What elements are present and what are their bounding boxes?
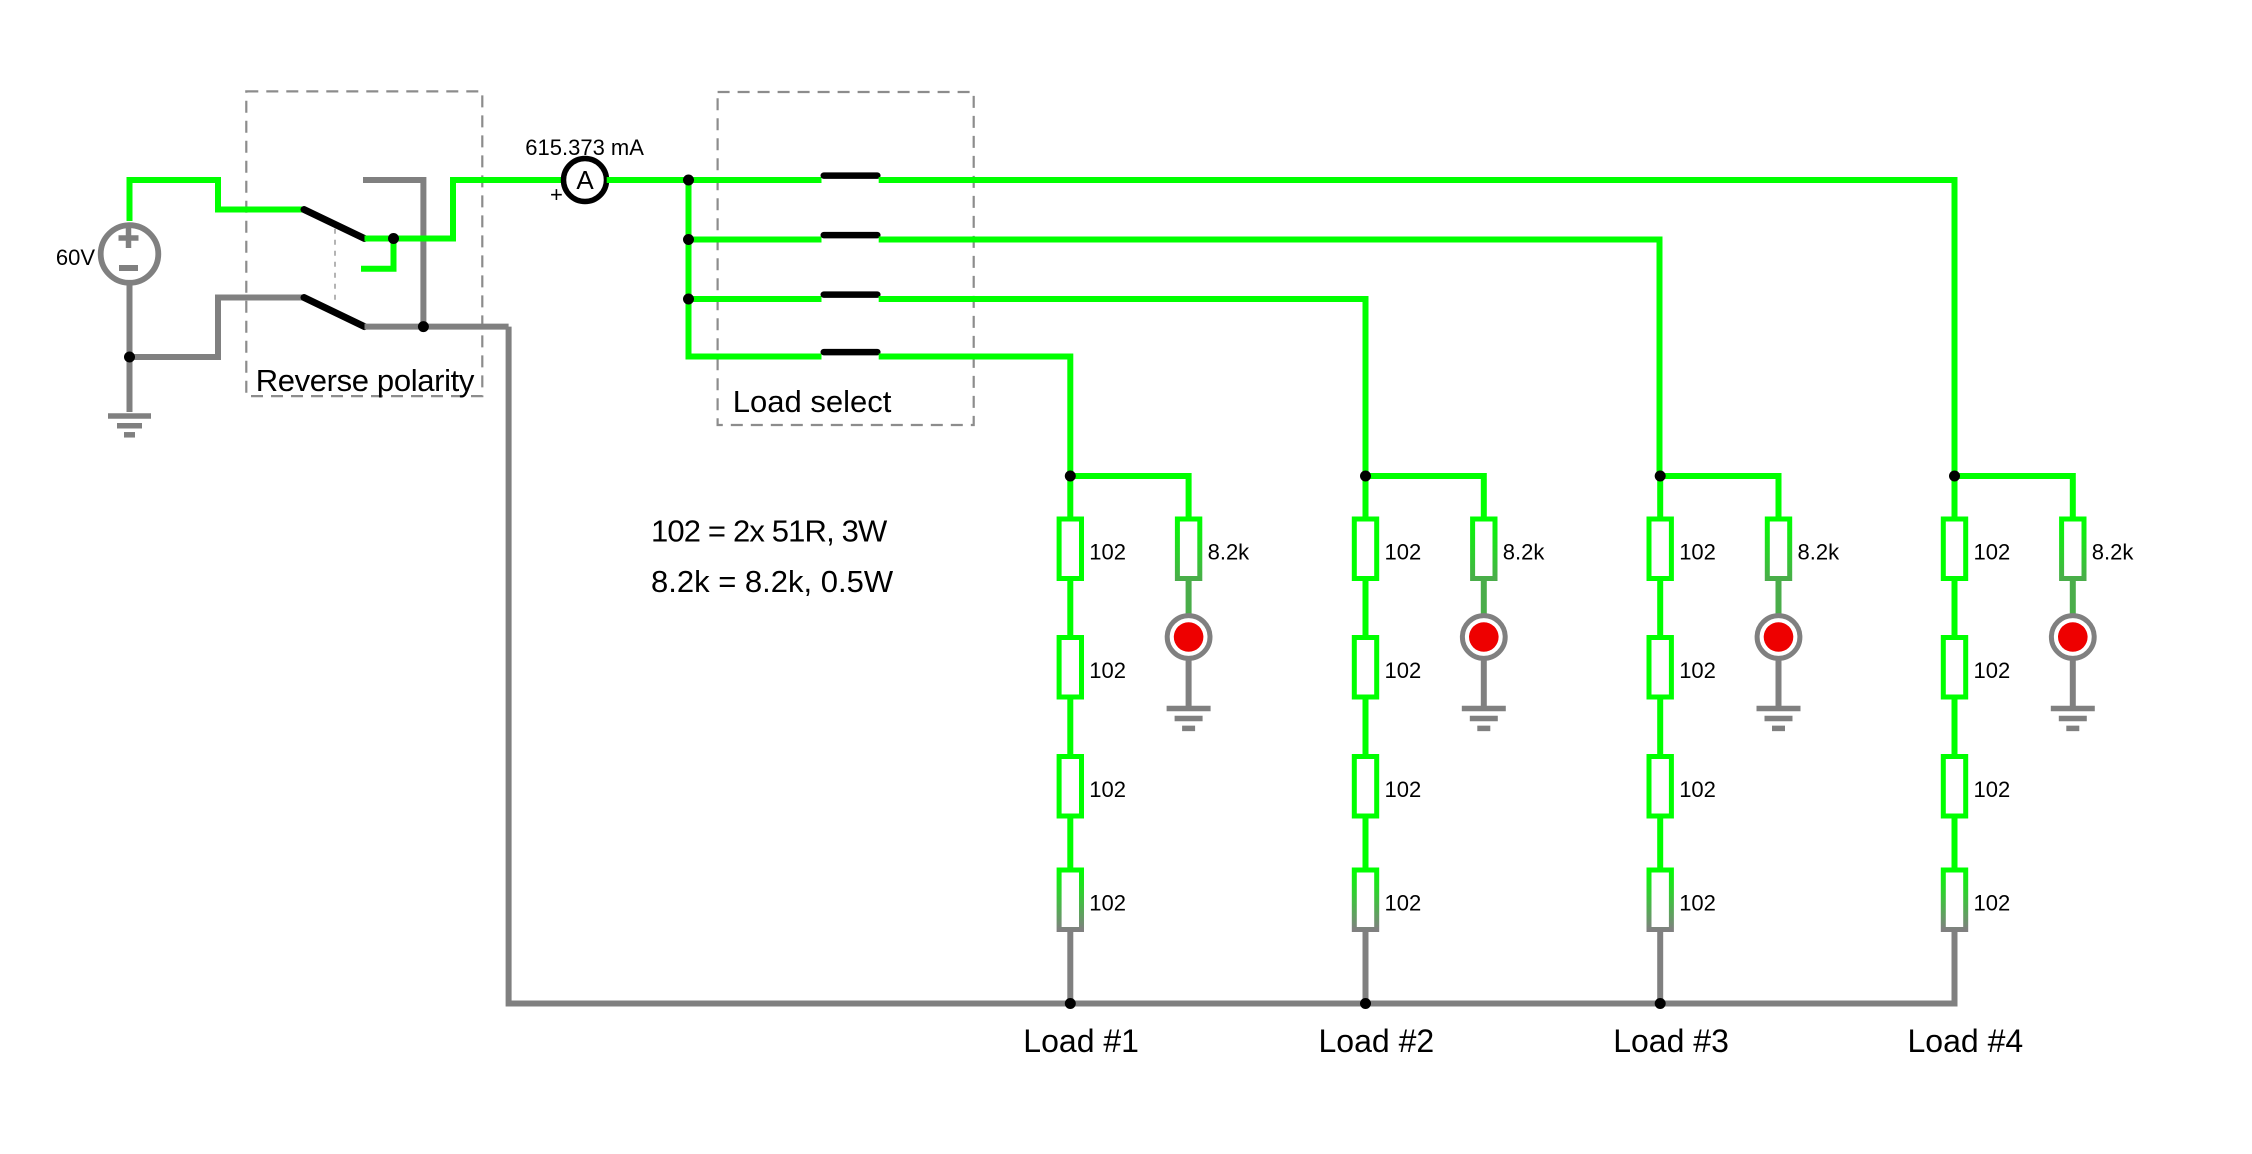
wire row1 left of switch S21 (689, 177, 822, 183)
LED D1 (1167, 616, 1210, 659)
svg-text:+: + (550, 182, 563, 207)
node load1 top junction (1065, 471, 1076, 482)
wire row1 to load drop (879, 180, 1955, 476)
wire R1e to LED D1 (1186, 579, 1192, 617)
wire R1d to ground bus (1067, 930, 1073, 1004)
node V1- junction (124, 352, 135, 363)
resistor R3a 102 (1649, 519, 1671, 579)
wire S1a throw to ammeter (365, 180, 564, 239)
switch S23 closed bar (824, 291, 878, 298)
node load3 bus junction (1655, 998, 1666, 1009)
svg-text:Load #1: Load #1 (1023, 1023, 1139, 1059)
LED D4 (2051, 616, 2094, 659)
svg-text:A: A (576, 165, 594, 195)
dashed box: Load select group (718, 92, 974, 425)
resistor R2d 102 (1354, 870, 1376, 930)
node load2 top junction (1360, 471, 1371, 482)
svg-text:102: 102 (1974, 891, 2011, 916)
svg-text:8.2k: 8.2k (1798, 540, 1841, 565)
resistor R1b 102 (1059, 638, 1081, 698)
wire row3 to load drop (879, 299, 1366, 476)
wire S1b throw to ground bus (365, 324, 509, 330)
svg-text:102: 102 (1385, 891, 1422, 916)
resistor R4a 102 (1943, 519, 1965, 579)
wire load3 top to LED branch (1660, 476, 1778, 519)
svg-text:8.2k: 8.2k (1503, 540, 1546, 565)
svg-text:8.2k: 8.2k (2092, 540, 2135, 565)
LED D3 (1757, 616, 1800, 659)
wire load1 into R1a (1067, 476, 1073, 519)
wire V1- down (127, 285, 133, 358)
wire load3 into R3a (1657, 476, 1663, 519)
switch S1a lever (top pole) (304, 210, 365, 239)
svg-text:102: 102 (1089, 658, 1126, 683)
switch S24 closed bar (824, 349, 878, 356)
wire LED D3 to ground (1776, 659, 1782, 707)
wire R2b to R2c (1363, 697, 1369, 757)
wire R3c to R3d (1657, 816, 1663, 870)
svg-text:102: 102 (1974, 777, 2011, 802)
node load1 bus junction (1065, 998, 1076, 1009)
wire load1 top to LED branch (1070, 476, 1188, 519)
wire R2c to R2d (1363, 816, 1369, 870)
svg-text:Load #3: Load #3 (1613, 1023, 1729, 1059)
wire load4 top to LED branch (1955, 476, 2073, 519)
wire row3 left of switch S23 (689, 296, 822, 302)
svg-text:60V: 60V (56, 245, 95, 270)
resistor R4d 102 (1943, 870, 1965, 930)
wire ground bus (509, 327, 1958, 1004)
svg-text:Load #4: Load #4 (1908, 1023, 2024, 1059)
node load4 top junction (1949, 471, 1960, 482)
ground symbol at source (108, 416, 151, 435)
node load2 bus junction (1360, 998, 1371, 1009)
wire R2d to ground bus (1363, 930, 1369, 1004)
switch S22 closed bar (824, 232, 878, 239)
resistor R2e 8.2k (1473, 519, 1495, 579)
dashed box: Reverse polarity group (246, 91, 482, 396)
ground symbol at LED D3 (1757, 709, 1801, 729)
wire R4d to ground bus (1952, 930, 1958, 1004)
svg-text:102: 102 (1385, 777, 1422, 802)
wire S1a unused throw stub (361, 239, 394, 269)
wire R1b to R1c (1067, 697, 1073, 757)
ground symbol at LED D2 (1462, 709, 1506, 729)
wire LED D2 to ground (1481, 659, 1487, 707)
wire V1- to switch S1b (130, 298, 305, 358)
resistor R4e 8.2k (2062, 519, 2084, 579)
resistor R3c 102 (1649, 757, 1671, 817)
wire S1b unused throw crossover (363, 180, 423, 327)
wire row4 left of switch S24 (686, 354, 822, 360)
wire R3d to ground bus (1657, 930, 1663, 1004)
wire R4b to R4c (1952, 697, 1958, 757)
resistor R1c 102 (1059, 757, 1081, 817)
svg-text:102: 102 (1679, 891, 1716, 916)
svg-text:Load #2: Load #2 (1319, 1023, 1435, 1059)
wire R1c to R1d (1067, 816, 1073, 870)
svg-text:102 = 2x 51R, 3W: 102 = 2x 51R, 3W (651, 513, 888, 548)
resistor R2a 102 (1354, 519, 1376, 579)
resistor R3e 8.2k (1767, 519, 1789, 579)
wire R3a to R3b (1657, 579, 1663, 638)
wire feed vertical (686, 180, 692, 360)
resistor R1d 102 (1059, 870, 1081, 930)
node S1b throw junction (418, 321, 429, 332)
svg-text:102: 102 (1679, 540, 1716, 565)
svg-text:102: 102 (1974, 658, 2011, 683)
resistor R2b 102 (1354, 638, 1376, 698)
node S1a throw junction (388, 233, 399, 244)
node feed row3 (683, 294, 694, 305)
resistor R3d 102 (1649, 870, 1671, 930)
voltage source V1 60V (101, 225, 159, 283)
switch S21 closed bar (824, 172, 878, 179)
svg-text:102: 102 (1385, 658, 1422, 683)
svg-text:102: 102 (1679, 658, 1716, 683)
wire V1+ to switch S1a (130, 180, 305, 221)
svg-text:102: 102 (1089, 540, 1126, 565)
svg-text:615.373 mA: 615.373 mA (525, 135, 644, 160)
wire R1a to R1b (1067, 579, 1073, 638)
svg-text:102: 102 (1974, 540, 2011, 565)
resistor R4c 102 (1943, 757, 1965, 817)
wire R2a to R2b (1363, 579, 1369, 638)
svg-text:8.2k = 8.2k, 0.5W: 8.2k = 8.2k, 0.5W (651, 564, 894, 599)
wire load2 top to LED branch (1366, 476, 1484, 519)
wire row2 to load drop (879, 240, 1660, 477)
wire R4a to R4b (1952, 579, 1958, 638)
wire R3b to R3c (1657, 697, 1663, 757)
resistor R4b 102 (1943, 638, 1965, 698)
LED D2 (1462, 616, 1505, 659)
wire R2e to LED D2 (1481, 579, 1487, 617)
switch S1b lever (bottom pole) (304, 298, 365, 327)
wire load4 into R4a (1952, 476, 1958, 519)
wire R4c to R4d (1952, 816, 1958, 870)
wire R4e to LED D4 (2070, 579, 2076, 617)
resistor R2c 102 (1354, 757, 1376, 817)
wire R3e to LED D3 (1776, 579, 1782, 617)
wire ammeter to feed node (607, 177, 689, 183)
node load3 top junction (1655, 471, 1666, 482)
wire LED D1 to ground (1186, 659, 1192, 707)
node feed row2 (683, 234, 694, 245)
wire row4 to load drop (879, 357, 1071, 477)
svg-text:102: 102 (1385, 540, 1422, 565)
ground symbol at LED D4 (2051, 709, 2095, 729)
ground symbol at LED D1 (1167, 709, 1211, 729)
wire row2 left of switch S22 (689, 237, 822, 243)
svg-text:102: 102 (1089, 891, 1126, 916)
gang link dashed between S1a and S1b (334, 229, 336, 301)
svg-text:8.2k: 8.2k (1208, 540, 1251, 565)
wire LED D4 to ground (2070, 659, 2076, 707)
node feed row1 (683, 175, 694, 186)
svg-text:Load select: Load select (733, 384, 892, 419)
resistor R3b 102 (1649, 638, 1671, 698)
svg-text:102: 102 (1679, 777, 1716, 802)
ammeter M1 (564, 159, 607, 202)
svg-text:Reverse polarity: Reverse polarity (256, 363, 475, 398)
resistor R1e 8.2k (1177, 519, 1199, 579)
wire to ground (127, 357, 133, 412)
resistor R1a 102 (1059, 519, 1081, 579)
svg-text:102: 102 (1089, 777, 1126, 802)
wire load2 into R2a (1363, 476, 1369, 519)
